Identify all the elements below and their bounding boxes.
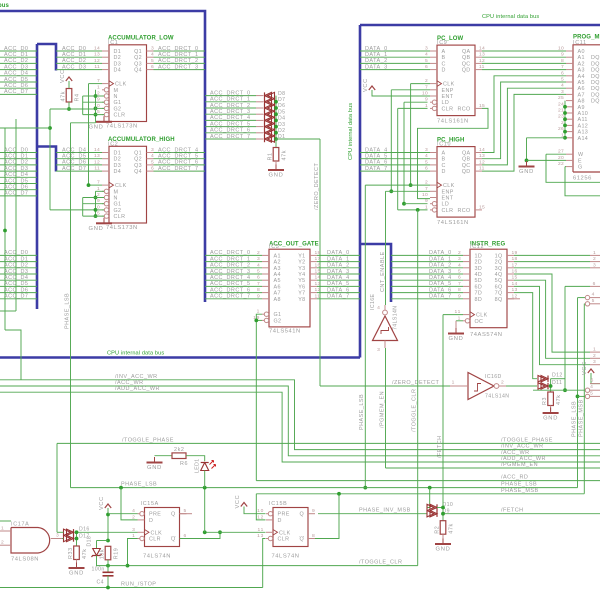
LED LED1	[195, 458, 216, 473]
wire /TOGGLE_CLR vertical x=417.7	[417, 210, 419, 566]
svg-text:CLR: CLR	[278, 537, 290, 543]
svg-text:DQ: DQ	[591, 74, 600, 80]
svg-text:23: 23	[558, 114, 564, 120]
svg-text:26: 26	[558, 126, 564, 132]
svg-text:IC15B: IC15B	[269, 501, 287, 507]
junction x=5	[3, 229, 7, 233]
wire IC12 1Q to right part pin 1	[514, 254, 590, 256]
svg-text:A7: A7	[274, 291, 281, 297]
VCC supply at IC9 ENT	[363, 78, 375, 92]
svg-text:M: M	[114, 88, 119, 94]
svg-text:D: D	[442, 68, 446, 74]
svg-text:74LS14N: 74LS14N	[393, 306, 399, 330]
svg-text:ACC_DRCT_5: ACC_DRCT_5	[210, 121, 251, 127]
wire DATA_4 to IC12 5D	[391, 279, 463, 281]
wire control loop IC1 x=82.7	[82, 96, 84, 115]
wire CLR row IC2	[83, 215, 104, 217]
svg-text:A10: A10	[578, 111, 589, 117]
svg-text:5: 5	[592, 298, 595, 304]
svg-text:B: B	[442, 157, 446, 163]
svg-text:N: N	[114, 94, 118, 100]
svg-text:G2: G2	[114, 106, 122, 112]
svg-text:ACC_D5: ACC_D5	[62, 154, 86, 160]
wire ACC_DRCT_4 to diode ladder	[205, 119, 256, 121]
svg-text:PHASE_LSB: PHASE_LSB	[65, 293, 71, 329]
svg-text:47k: 47k	[449, 523, 455, 534]
svg-text:QC: QC	[462, 163, 471, 169]
svg-text:QA: QA	[462, 49, 471, 55]
wire /ZERO_DETECT vertical x=320	[319, 139, 321, 386]
ground under IC1	[89, 116, 112, 130]
svg-text:74LS173N: 74LS173N	[106, 124, 138, 130]
svg-text:/ACC_WR: /ACC_WR	[501, 450, 530, 456]
diode D12	[538, 376, 548, 382]
svg-text:4Q: 4Q	[495, 272, 503, 278]
svg-text:ACC_DRCT_7: ACC_DRCT_7	[210, 294, 251, 300]
svg-text:7D: 7D	[475, 291, 483, 297]
wire /FETCH to IC12 CLK	[443, 314, 463, 316]
svg-text:47k: 47k	[556, 395, 562, 406]
resistor R3 47k	[542, 392, 562, 406]
svg-text:D1: D1	[114, 151, 122, 157]
svg-text:G1: G1	[274, 312, 282, 318]
wire D18 to TOGGLE_CLR row	[97, 556, 128, 566]
wire ACC_DRCT_5 to IC3 A6	[205, 285, 262, 287]
svg-text:CLR: CLR	[442, 208, 454, 214]
junction PHASE_LSB to D	[119, 486, 123, 490]
svg-text:A: A	[442, 49, 446, 55]
IC9 74LS161N PC_LOW	[422, 36, 485, 125]
svg-text:/PGMEM_EN: /PGMEM_EN	[380, 391, 386, 428]
diode D16	[64, 529, 74, 535]
svg-text:A13: A13	[578, 130, 589, 136]
wire LD IC10 stub	[404, 203, 428, 205]
wire ACC_D0 (left group 3)	[0, 254, 37, 256]
wire ACC_DRCT_5 to diode ladder	[205, 126, 256, 128]
wire ACC_D0 (left group 1)	[0, 50, 37, 52]
svg-text:LD: LD	[442, 100, 450, 106]
svg-text:3: 3	[593, 359, 596, 365]
wire DATA_3 from IC3 Y4 to bus	[317, 273, 360, 275]
svg-text:DATA_4: DATA_4	[327, 275, 350, 281]
wire PHASE_LSB vertical x=70.5	[70, 123, 72, 488]
svg-text:ACC_D2: ACC_D2	[4, 58, 28, 64]
svg-text:G1: G1	[114, 202, 122, 208]
wire G1 row stub	[83, 101, 104, 103]
IC2 74LS173N ACCUMULATOR_HIGH	[94, 137, 175, 231]
wire DATA_2 from IC3 Y3 to bus	[317, 267, 360, 269]
svg-text:7Q: 7Q	[495, 291, 503, 297]
svg-text:D5: D5	[278, 109, 285, 115]
wire CPU clock vertical x=410.6	[410, 84, 412, 186]
diode D5 (zero-detect ladder)	[265, 111, 275, 117]
svg-text:/TOGGLE_CLR: /TOGGLE_CLR	[359, 560, 402, 566]
svg-text:25: 25	[558, 95, 564, 101]
wire D10 cathode	[437, 507, 443, 509]
svg-text:Q3: Q3	[134, 61, 142, 67]
resistor R6 2k2	[172, 447, 188, 467]
svg-text:A8: A8	[274, 297, 281, 303]
wire D16/D17 cathode join	[76, 532, 78, 540]
wire DATA_6 to IC12 7D	[391, 292, 463, 294]
wire G2 to pin	[96, 107, 105, 109]
svg-text:/INV_ACC_WR: /INV_ACC_WR	[501, 444, 544, 450]
wire ACC_D4 (left group 2)	[0, 176, 37, 178]
svg-text:/ACC_RD: /ACC_RD	[501, 475, 528, 481]
svg-text:6Q: 6Q	[495, 284, 503, 290]
svg-text:DATA_6: DATA_6	[365, 160, 388, 166]
wire IC10 QC to IC11 A6	[482, 88, 566, 165]
svg-text:DQ: DQ	[591, 92, 600, 98]
svg-text:VCC: VCC	[60, 69, 66, 83]
svg-text:1: 1	[593, 250, 596, 256]
svg-text:15: 15	[479, 204, 485, 210]
wire /ACC_RD from IC3 G1/G2	[256, 314, 262, 480]
svg-text:Q: Q	[299, 512, 304, 518]
svg-text:DQ: DQ	[591, 80, 600, 86]
wire DATA_1 to IC12 2D	[391, 261, 463, 263]
wire VCC drop x=108	[107, 508, 109, 541]
wire DATA_2 to IC9	[360, 62, 430, 64]
wire ENP IC9 stub	[391, 89, 430, 91]
wire PHASE_MSB to D IC15B	[256, 494, 265, 520]
wire CLR IC9 stub	[398, 107, 428, 109]
svg-text:R4: R4	[75, 93, 81, 101]
svg-text:R19: R19	[114, 548, 120, 560]
wire ACC_DRCT_6 to diode ladder	[205, 132, 256, 134]
IC11 61256 PROG_MEM	[558, 35, 600, 182]
svg-text:ACC_DRCT_1: ACC_DRCT_1	[158, 52, 199, 58]
junction R4 bottom	[67, 107, 71, 111]
resistor R19 10k	[100, 546, 120, 560]
svg-text:/TOGGLE_CLR: /TOGGLE_CLR	[412, 389, 418, 432]
svg-text:A6: A6	[274, 284, 281, 290]
svg-text:ACC_DRCT_3: ACC_DRCT_3	[210, 109, 251, 115]
resistor R2 47k	[435, 521, 455, 535]
wire ACC_DRCT_2 to diode ladder	[205, 107, 256, 109]
svg-text:/TOGGLE_PHASE: /TOGGLE_PHASE	[501, 437, 553, 443]
svg-text:6: 6	[591, 378, 594, 384]
svg-text:DQ: DQ	[591, 55, 600, 61]
diode D8 (zero-detect ladder)	[265, 92, 275, 98]
wire ACC_D6 (left group 3)	[0, 292, 37, 294]
svg-text:Q2: Q2	[134, 55, 142, 61]
wire RUN_/STOP	[0, 587, 263, 589]
wire VCC to right pin 6	[591, 373, 600, 384]
svg-text:ENT: ENT	[442, 196, 454, 202]
wire ACC_DRCT_7 from IC2 Q4	[154, 170, 206, 172]
svg-text:N: N	[114, 196, 118, 202]
svg-text:10k: 10k	[100, 549, 106, 560]
wire /ADD_ACC_WR	[0, 392, 600, 462]
svg-text:ACC_DRCT_6: ACC_DRCT_6	[158, 160, 199, 166]
svg-text:Q3: Q3	[134, 163, 142, 169]
svg-text:DATA_0: DATA_0	[365, 46, 388, 52]
svg-text:Q: Q	[171, 537, 176, 543]
capacitor C4 100n	[92, 567, 114, 586]
svg-text:ACC_DRCT_3: ACC_DRCT_3	[210, 269, 251, 275]
svg-text:A11: A11	[578, 117, 588, 123]
svg-text:bus: bus	[0, 3, 10, 9]
svg-text:G2: G2	[274, 318, 282, 324]
wire y=122.8 cluster link	[71, 122, 96, 124]
svg-text:Y7: Y7	[298, 291, 305, 297]
svg-text:ACC_DRCT_0: ACC_DRCT_0	[210, 90, 251, 96]
svg-text:ACC_DRCT_6: ACC_DRCT_6	[210, 128, 251, 134]
wire PHASE_LSB riser x=365.3	[364, 185, 366, 488]
svg-text:A4: A4	[578, 74, 585, 80]
svg-text:DATA_2: DATA_2	[429, 263, 452, 269]
svg-text:RUN_/STOP: RUN_/STOP	[121, 581, 156, 587]
svg-text:61256: 61256	[573, 176, 592, 182]
wire PHASE_LSB to CLK IC15B	[205, 531, 266, 533]
junction D18 branch	[106, 539, 110, 543]
wire DATA_3 to IC12 4D	[391, 273, 463, 275]
svg-text:C: C	[442, 163, 446, 169]
svg-text:GND: GND	[269, 173, 284, 179]
svg-text:ACC_DRCT_1: ACC_DRCT_1	[210, 97, 251, 103]
wire G stub	[565, 166, 566, 168]
svg-text:CLR: CLR	[149, 537, 161, 543]
svg-text:GND: GND	[436, 547, 451, 553]
wire G2 net horizontal y=109	[50, 108, 96, 110]
wire CNT_ENABLE vertical x=391.3	[390, 90, 392, 192]
wire ACC_D3 (left group 1)	[0, 69, 37, 71]
wire M to pin IC2	[96, 190, 105, 192]
wire control cluster IC1 vertical x=95.5	[95, 90, 97, 123]
svg-text:VCC: VCC	[235, 495, 241, 509]
wire /TOGGLE_PHASE drop x=57	[56, 443, 58, 532]
wire ACC_D4 (left group 3)	[0, 279, 37, 281]
svg-text:R6: R6	[180, 461, 188, 467]
svg-text:DATA_7: DATA_7	[365, 166, 388, 172]
svg-text:ACC_D0: ACC_D0	[62, 46, 86, 52]
svg-text:GND: GND	[69, 571, 84, 577]
svg-text:3: 3	[377, 347, 380, 353]
svg-text:D4: D4	[114, 68, 122, 74]
svg-text:GND: GND	[89, 226, 104, 232]
diode D10	[427, 504, 437, 510]
svg-text:CLK: CLK	[279, 530, 291, 536]
svg-text:A5: A5	[274, 278, 281, 284]
junction N pin IC1	[94, 94, 98, 98]
svg-text:CLR: CLR	[442, 106, 454, 112]
junction ladder row 5	[274, 125, 278, 129]
junction D9/FETCH	[441, 512, 445, 516]
wire ACC_DRCT_3 to diode ladder	[205, 113, 256, 115]
wire R2 to gnd	[442, 534, 444, 542]
wire RCO IC9 to ENT IC10	[418, 108, 489, 198]
svg-text:DATA_5: DATA_5	[365, 154, 388, 160]
svg-text:CLK: CLK	[115, 183, 127, 189]
diode D1 (zero-detect ladder)	[265, 136, 275, 142]
junction x=50 y=128	[48, 126, 52, 130]
svg-text:A1: A1	[578, 55, 585, 61]
svg-text:74LS173N: 74LS173N	[106, 225, 138, 231]
svg-text:3: 3	[593, 262, 596, 268]
svg-text:Y1: Y1	[298, 253, 305, 259]
wire R1 bottom	[275, 161, 277, 168]
svg-text:A14: A14	[578, 136, 589, 142]
wire upper pin 4 row	[578, 297, 586, 299]
wire CLR net vertical x=397.7	[397, 108, 399, 209]
junction LD IC10	[402, 202, 406, 206]
svg-text:74LS74N: 74LS74N	[143, 554, 171, 560]
svg-text:DATA_1: DATA_1	[429, 256, 452, 262]
svg-text:Y4: Y4	[298, 272, 305, 278]
svg-text:IC16D: IC16D	[485, 374, 502, 380]
junction D16 cathode	[75, 530, 79, 534]
svg-text:ACC_D6: ACC_D6	[4, 83, 28, 89]
svg-text:A3: A3	[578, 68, 585, 74]
wire ACC_D3 (left group 3)	[0, 273, 37, 275]
wire ACC_D7 (left group 3)	[0, 298, 37, 300]
svg-text:24: 24	[558, 101, 564, 107]
wire gated clock to CLK IC15A	[78, 531, 138, 533]
svg-text:Q: Q	[171, 512, 176, 518]
wire ACC_D0 (left group 2)	[0, 152, 37, 154]
wire R6 to LED1	[186, 456, 205, 461]
svg-text:74LS161N: 74LS161N	[437, 118, 469, 124]
junction CLR A / TOGGLE_CLR	[126, 564, 130, 568]
svg-text:47k: 47k	[61, 91, 67, 102]
wire OC to ground	[456, 320, 463, 322]
svg-text:A8: A8	[578, 99, 585, 105]
svg-text:ACC_DRCT_4: ACC_DRCT_4	[210, 115, 251, 121]
svg-text:ACC_DRCT_3: ACC_DRCT_3	[158, 64, 199, 70]
wire /FETCH to right edge	[443, 513, 600, 515]
svg-text:A7: A7	[578, 92, 585, 98]
wire VCC to PRE IC15A	[108, 513, 138, 515]
svg-text:R33: R33	[68, 547, 74, 559]
wire LED drop x=204.7	[204, 488, 206, 533]
svg-text:ACC_DRCT_4: ACC_DRCT_4	[158, 147, 199, 153]
resistor R33 47k	[68, 546, 88, 560]
junction ladder row 7	[274, 137, 278, 141]
junction PHASE_LSB riser	[363, 486, 367, 490]
svg-text:CLK: CLK	[476, 313, 488, 319]
svg-text:2D: 2D	[475, 260, 483, 266]
svg-text:G2: G2	[114, 208, 122, 214]
svg-text:PRE: PRE	[149, 512, 161, 518]
svg-text:DATA_5: DATA_5	[327, 281, 350, 287]
svg-text:LD: LD	[442, 202, 450, 208]
bus ACC branch for IC2	[37, 147, 56, 172]
wire /FETCH riser x=443	[442, 315, 444, 521]
wire ACC_D2 (left group 2)	[0, 164, 37, 166]
wire LD IC9 stub	[404, 101, 428, 103]
diode D9	[427, 511, 437, 517]
wire ACC_D5 (left group 3)	[0, 285, 37, 287]
wire ACC_DRCT_3 from IC1 Q4	[154, 69, 206, 71]
wire ACC_DRCT_0 from IC1 Q1	[154, 50, 206, 52]
wire G1 row IC2	[83, 203, 104, 205]
wire CLK net IC1-IC2 vertical x=88.5	[88, 84, 90, 186]
wire to D18	[97, 540, 109, 542]
wire ACC_D3 to IC1 D4	[56, 69, 102, 71]
IC12 74AS574N INSTR_REG	[455, 242, 518, 339]
svg-text:47k: 47k	[82, 549, 88, 560]
wire to E pin	[527, 159, 567, 161]
wire ACC_D7 (left group 1)	[0, 93, 37, 95]
svg-text:Q1: Q1	[134, 151, 142, 157]
VCC supply at IC15B	[235, 495, 247, 509]
wire IC9 QB to IC11 A1	[482, 56, 566, 58]
svg-text:DATA_6: DATA_6	[327, 287, 350, 293]
svg-text:/FETCH: /FETCH	[437, 435, 443, 458]
wire ENP IC10 row	[386, 190, 431, 192]
svg-text:ENP: ENP	[442, 189, 454, 195]
wire R3 to gnd	[550, 406, 552, 412]
wire IC16D output to D11	[506, 385, 537, 387]
wire GND branch vertical x=526.5	[526, 138, 528, 161]
svg-text:8: 8	[312, 533, 315, 539]
wire R19 bottom	[107, 560, 109, 572]
svg-text:IC15A: IC15A	[141, 501, 159, 507]
svg-text:10: 10	[422, 192, 428, 198]
svg-text:E: E	[578, 158, 582, 164]
svg-text:A3: A3	[274, 266, 281, 272]
junction PHASE_LSB to D10	[428, 486, 432, 490]
wire L x=5 to /INV_ACC_WR	[5, 330, 21, 380]
svg-text:G: G	[578, 165, 583, 171]
svg-text:/PGMEM_EN: /PGMEM_EN	[501, 462, 538, 468]
bus ACC branch top (n-shape)	[37, 44, 56, 71]
svg-text:QB: QB	[462, 157, 471, 163]
junction G1-G2 tie	[254, 319, 258, 323]
svg-text:DQ: DQ	[591, 99, 600, 105]
wire ACC_D7 (left group 2)	[0, 195, 37, 197]
wire PHASE_LSB to D10	[427, 488, 430, 508]
svg-text:PHASE_LSB: PHASE_LSB	[359, 394, 365, 430]
wire ACC_DRCT_6 from IC2 Q3	[154, 164, 206, 166]
diode D11	[538, 383, 548, 389]
svg-text:ACC_DRCT_1: ACC_DRCT_1	[210, 256, 251, 262]
junction Qbar A	[218, 530, 222, 534]
ground at IC11 E/address tie	[519, 161, 535, 175]
wire DATA_0 to IC12 1D	[391, 254, 463, 256]
junction A11	[563, 117, 567, 121]
svg-text:74LS161N: 74LS161N	[437, 220, 469, 226]
wire pin 5 row (bubble)	[578, 395, 586, 397]
svg-text:100n: 100n	[92, 567, 105, 573]
svg-text:A1: A1	[274, 253, 281, 259]
wire ACC_DRCT_5 from IC2 Q2	[154, 158, 206, 160]
junction G2 pin IC1	[94, 107, 98, 111]
wire LD net vertical x=404	[403, 102, 405, 204]
svg-text:74LS74N: 74LS74N	[272, 554, 300, 560]
svg-text:Q4: Q4	[134, 169, 142, 175]
svg-text:2: 2	[593, 353, 596, 359]
svg-text:ACC_D4: ACC_D4	[62, 147, 86, 153]
svg-text:D4: D4	[278, 116, 285, 122]
wire ACC_DRCT_2 to IC3 A3	[205, 267, 262, 269]
junction ENP IC10	[389, 189, 393, 193]
svg-text:ACC_DRCT_5: ACC_DRCT_5	[210, 281, 251, 287]
wire IC9 QC to IC11 A2	[482, 62, 566, 64]
svg-text:ACC_DRCT_2: ACC_DRCT_2	[210, 263, 251, 269]
wire IC15A Qbar to divider row	[180, 532, 221, 538]
junction x=204.7 CLKB row	[203, 530, 207, 534]
wire ACC_DRCT_3 to IC3 A4	[205, 273, 262, 275]
svg-text:IC17A: IC17A	[11, 522, 29, 528]
inverter IC16E 74LS14 (vertical)	[370, 293, 399, 353]
svg-text:C4: C4	[97, 580, 104, 586]
wire pin 4 row (bubble)	[533, 389, 585, 391]
svg-text:A: A	[442, 151, 446, 157]
wire VCC to ENT IC9	[372, 90, 430, 96]
wire VCC to R4	[68, 81, 70, 89]
